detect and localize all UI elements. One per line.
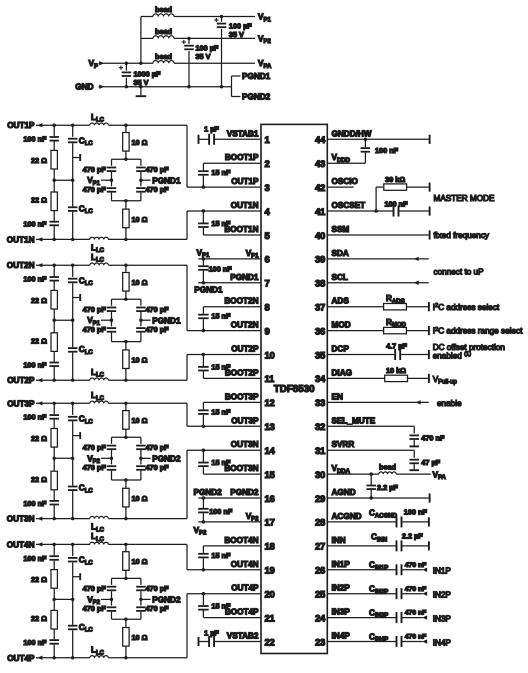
svg-text:10 kΩ: 10 kΩ — [386, 366, 406, 375]
svg-text:100 nF: 100 nF — [23, 275, 47, 284]
svg-text:39 kΩ: 39 kΩ — [385, 175, 405, 184]
svg-text:LLC: LLC — [91, 532, 105, 543]
svg-text:10 Ω: 10 Ω — [132, 356, 148, 365]
svg-text:1 µF: 1 µF — [204, 628, 219, 637]
svg-text:100 nF: 100 nF — [23, 554, 47, 563]
svg-text:VP2: VP2 — [246, 512, 259, 523]
svg-text:IN4P: IN4P — [332, 632, 351, 641]
svg-text:OUT1P: OUT1P — [7, 121, 35, 130]
svg-text:28: 28 — [315, 518, 325, 529]
svg-text:470 pF: 470 pF — [83, 604, 107, 613]
svg-text:470 pF: 470 pF — [146, 604, 170, 613]
svg-text:IN1P: IN1P — [332, 560, 351, 569]
svg-text:470 pF: 470 pF — [146, 185, 170, 194]
svg-text:30: 30 — [315, 470, 325, 481]
svg-text:26: 26 — [315, 566, 325, 577]
svg-text:VP2: VP2 — [194, 526, 207, 537]
svg-text:17: 17 — [265, 518, 275, 529]
svg-text:13: 13 — [265, 422, 275, 433]
svg-text:AGND: AGND — [332, 488, 356, 497]
svg-text:470 pF: 470 pF — [83, 165, 107, 174]
svg-text:OUT3N: OUT3N — [7, 515, 35, 524]
svg-text:bead: bead — [379, 463, 396, 472]
svg-text:OUT2N: OUT2N — [7, 261, 35, 270]
svg-text:35 V: 35 V — [229, 30, 244, 39]
svg-text:1 µF: 1 µF — [204, 124, 219, 133]
svg-text:OUT1P: OUT1P — [231, 177, 259, 186]
svg-text:100 nF: 100 nF — [23, 220, 47, 229]
svg-text:CLC: CLC — [79, 204, 94, 215]
svg-text:12: 12 — [265, 398, 275, 409]
svg-text:15: 15 — [265, 470, 276, 481]
svg-text:LLC: LLC — [91, 113, 105, 124]
svg-text:100 nF: 100 nF — [404, 508, 428, 517]
svg-text:10 Ω: 10 Ω — [132, 138, 148, 147]
svg-text:IN2P: IN2P — [332, 584, 351, 593]
svg-text:470 pF: 470 pF — [83, 443, 107, 452]
svg-text:3: 3 — [265, 183, 270, 194]
svg-text:100 nF: 100 nF — [23, 135, 47, 144]
svg-text:47 µF: 47 µF — [421, 458, 440, 467]
svg-text:11: 11 — [265, 374, 275, 385]
svg-text:470 pF: 470 pF — [146, 584, 170, 593]
svg-text:connect to uP: connect to uP — [434, 268, 485, 277]
svg-text:470 nF: 470 nF — [405, 562, 427, 569]
svg-text:VDDD: VDDD — [332, 153, 351, 164]
svg-text:bead: bead — [155, 52, 172, 61]
svg-text:35: 35 — [315, 350, 326, 361]
svg-text:DCP: DCP — [332, 345, 350, 354]
svg-text:9: 9 — [265, 326, 270, 337]
svg-text:OUT3N: OUT3N — [231, 440, 259, 449]
svg-text:18: 18 — [265, 542, 275, 553]
svg-text:SDA: SDA — [332, 249, 349, 258]
svg-text:SSM: SSM — [332, 225, 350, 234]
svg-text:BOOT1P: BOOT1P — [225, 153, 259, 162]
svg-text:CLC: CLC — [79, 623, 94, 634]
svg-text:15 nF: 15 nF — [211, 168, 231, 177]
svg-text:MOD: MOD — [332, 321, 351, 330]
svg-text:OUT4N: OUT4N — [231, 560, 259, 569]
svg-text:15 nF: 15 nF — [211, 602, 231, 611]
svg-text:PGND2: PGND2 — [194, 488, 223, 497]
svg-text:22 Ω: 22 Ω — [31, 156, 47, 165]
svg-text:470 pF: 470 pF — [146, 443, 170, 452]
svg-text:OUT3P: OUT3P — [7, 399, 35, 408]
svg-text:470 nF: 470 nF — [405, 634, 427, 641]
svg-text:CACGND: CACGND — [369, 509, 398, 520]
svg-text:CLC: CLC — [79, 556, 94, 567]
svg-text:14: 14 — [265, 446, 276, 457]
svg-text:21: 21 — [265, 613, 276, 624]
svg-text:4.7 µF: 4.7 µF — [386, 342, 407, 351]
svg-text:VP1: VP1 — [197, 248, 210, 259]
svg-text:7: 7 — [265, 279, 270, 290]
svg-text:44: 44 — [315, 135, 326, 146]
svg-text:DIAG: DIAG — [332, 368, 352, 377]
svg-text:OUT4P: OUT4P — [7, 654, 35, 663]
svg-text:39: 39 — [315, 255, 325, 266]
svg-text:470 pF: 470 pF — [146, 463, 170, 472]
svg-text:TDF8530: TDF8530 — [274, 384, 315, 395]
svg-text:34: 34 — [315, 374, 326, 385]
svg-text:43: 43 — [315, 159, 325, 170]
svg-text:ADS: ADS — [332, 297, 350, 306]
svg-text:10 Ω: 10 Ω — [132, 215, 148, 224]
svg-text:2.2 µF: 2.2 µF — [402, 532, 423, 541]
svg-text:2: 2 — [265, 159, 270, 170]
svg-text:15 nF: 15 nF — [211, 551, 231, 560]
svg-text:OUT2P: OUT2P — [231, 345, 259, 354]
svg-text:22: 22 — [265, 637, 275, 648]
svg-text:BOOT3P: BOOT3P — [225, 392, 259, 401]
svg-text:VP: VP — [89, 59, 98, 70]
svg-text:22 Ω: 22 Ω — [31, 614, 47, 623]
svg-text:PGND1: PGND1 — [242, 72, 271, 81]
svg-text:IN4P: IN4P — [433, 638, 452, 647]
svg-text:VDDA: VDDA — [332, 464, 351, 475]
svg-text:100 nF: 100 nF — [23, 360, 47, 369]
svg-text:SVRR: SVRR — [332, 440, 355, 449]
svg-text:470 pF: 470 pF — [83, 584, 107, 593]
svg-text:470 pF: 470 pF — [83, 185, 107, 194]
svg-text:IN3P: IN3P — [433, 614, 452, 623]
svg-text:22 Ω: 22 Ω — [31, 296, 47, 305]
svg-text:LLC: LLC — [91, 368, 105, 379]
svg-text:PGND2: PGND2 — [242, 93, 271, 102]
svg-text:100 nF: 100 nF — [384, 199, 408, 208]
svg-text:2.2 µF: 2.2 µF — [377, 483, 398, 492]
svg-text:15 nF: 15 nF — [211, 219, 231, 228]
svg-text:OSCSET: OSCSET — [332, 201, 366, 210]
svg-text:100 nF: 100 nF — [23, 638, 47, 647]
svg-text:OSCIO: OSCIO — [332, 177, 359, 186]
svg-text:36: 36 — [315, 326, 325, 337]
svg-text:470 pF: 470 pF — [83, 325, 107, 334]
svg-text:40: 40 — [315, 231, 325, 242]
svg-text:15 nF: 15 nF — [211, 458, 231, 467]
svg-text:32: 32 — [315, 422, 325, 433]
svg-text:25: 25 — [315, 590, 326, 601]
svg-text:22 Ω: 22 Ω — [31, 575, 47, 584]
svg-text:20: 20 — [265, 590, 275, 601]
svg-text:PGND1: PGND1 — [194, 286, 223, 295]
svg-text:15 nF: 15 nF — [211, 407, 231, 416]
svg-text:bead: bead — [155, 27, 172, 36]
svg-text:CLC: CLC — [79, 276, 94, 287]
svg-text:42: 42 — [315, 183, 325, 194]
svg-text:OUT4P: OUT4P — [231, 584, 259, 593]
svg-text:enabled (1): enabled (1) — [433, 351, 472, 360]
svg-text:enable: enable — [437, 399, 462, 408]
svg-text:EN: EN — [332, 392, 343, 401]
svg-text:ACGND: ACGND — [332, 512, 362, 521]
svg-text:I2C address range select: I2C address range select — [433, 327, 523, 336]
svg-text:15 nF: 15 nF — [211, 312, 231, 321]
svg-text:SCL: SCL — [332, 273, 348, 282]
svg-text:I2C address select: I2C address select — [433, 303, 500, 312]
svg-text:CLC: CLC — [79, 484, 94, 495]
svg-text:IN1P: IN1P — [433, 567, 452, 576]
svg-text:22 Ω: 22 Ω — [31, 336, 47, 345]
svg-text:VSTAB1: VSTAB1 — [227, 129, 259, 138]
svg-text:100 nF: 100 nF — [23, 499, 47, 508]
svg-text:38: 38 — [315, 279, 325, 290]
svg-text:23: 23 — [315, 637, 325, 648]
svg-text:35 V: 35 V — [196, 52, 211, 61]
svg-text:19: 19 — [265, 566, 275, 577]
svg-text:VP1: VP1 — [246, 249, 259, 260]
svg-text:470 pF: 470 pF — [83, 305, 107, 314]
svg-text:470 nF: 470 nF — [421, 434, 445, 443]
svg-text:33: 33 — [315, 398, 325, 409]
svg-text:8: 8 — [265, 303, 270, 314]
svg-text:10 Ω: 10 Ω — [132, 278, 148, 287]
svg-text:470 pF: 470 pF — [83, 463, 107, 472]
svg-text:470 pF: 470 pF — [146, 325, 170, 334]
svg-text:6: 6 — [265, 255, 270, 266]
svg-text:OUT2P: OUT2P — [7, 376, 35, 385]
svg-text:GNDD/HW: GNDD/HW — [332, 129, 372, 138]
svg-text:22 Ω: 22 Ω — [31, 434, 47, 443]
svg-text:16: 16 — [265, 494, 275, 505]
svg-text:100 nF: 100 nF — [209, 264, 233, 273]
svg-text:IN3P: IN3P — [332, 608, 351, 617]
svg-text:CLC: CLC — [79, 345, 94, 356]
svg-text:PGND2: PGND2 — [230, 488, 259, 497]
svg-text:470 nF: 470 nF — [405, 586, 427, 593]
svg-text:IN2P: IN2P — [433, 591, 452, 600]
svg-text:10 Ω: 10 Ω — [132, 494, 148, 503]
svg-text:22 Ω: 22 Ω — [31, 475, 47, 484]
svg-text:OUT3P: OUT3P — [231, 416, 259, 425]
svg-text:10 Ω: 10 Ω — [132, 416, 148, 425]
svg-text:GND: GND — [75, 83, 93, 92]
svg-text:INN: INN — [332, 536, 346, 545]
svg-text:CLC: CLC — [79, 136, 94, 147]
svg-text:100 nF: 100 nF — [23, 413, 47, 422]
svg-text:MASTER MODE: MASTER MODE — [434, 194, 495, 203]
svg-text:BOOT4N: BOOT4N — [224, 536, 258, 545]
svg-text:22 Ω: 22 Ω — [31, 196, 47, 205]
svg-text:fixed frequency: fixed frequency — [434, 231, 490, 240]
svg-text:470 nF: 470 nF — [405, 610, 427, 617]
svg-text:OUT4N: OUT4N — [7, 540, 35, 549]
svg-text:VPA: VPA — [258, 59, 272, 70]
svg-text:SEL_MUTE: SEL_MUTE — [332, 416, 376, 425]
svg-text:470 pF: 470 pF — [146, 165, 170, 174]
svg-text:470 pF: 470 pF — [146, 305, 170, 314]
svg-text:bead: bead — [155, 5, 172, 14]
svg-text:10: 10 — [265, 350, 275, 361]
svg-text:OUT1N: OUT1N — [231, 201, 259, 210]
svg-text:VSTAB2: VSTAB2 — [227, 632, 259, 641]
svg-text:VP2: VP2 — [258, 34, 271, 45]
svg-text:CINN: CINN — [371, 533, 387, 544]
svg-text:VPA: VPA — [433, 470, 447, 481]
svg-text:37: 37 — [315, 303, 325, 314]
svg-text:BOOT2N: BOOT2N — [224, 297, 258, 306]
svg-text:10 Ω: 10 Ω — [132, 557, 148, 566]
svg-text:LLC: LLC — [91, 646, 105, 657]
svg-text:100 nF: 100 nF — [209, 507, 233, 516]
svg-text:VP1: VP1 — [258, 13, 271, 24]
svg-text:100 nF: 100 nF — [375, 146, 399, 155]
svg-text:OUT1N: OUT1N — [7, 235, 35, 244]
svg-text:31: 31 — [315, 446, 326, 457]
svg-text:LLC: LLC — [91, 253, 105, 264]
svg-text:OUT2N: OUT2N — [231, 321, 259, 330]
svg-text:24: 24 — [315, 613, 326, 624]
svg-text:15 nF: 15 nF — [211, 363, 231, 372]
svg-text:LLC: LLC — [91, 391, 105, 402]
svg-text:10 Ω: 10 Ω — [132, 633, 148, 642]
svg-text:CLC: CLC — [79, 415, 94, 426]
svg-text:VPull-up: VPull-up — [433, 375, 458, 386]
svg-text:29: 29 — [315, 494, 325, 505]
svg-text:41: 41 — [315, 207, 326, 218]
svg-text:27: 27 — [315, 542, 325, 553]
svg-text:PGND1: PGND1 — [230, 273, 259, 282]
